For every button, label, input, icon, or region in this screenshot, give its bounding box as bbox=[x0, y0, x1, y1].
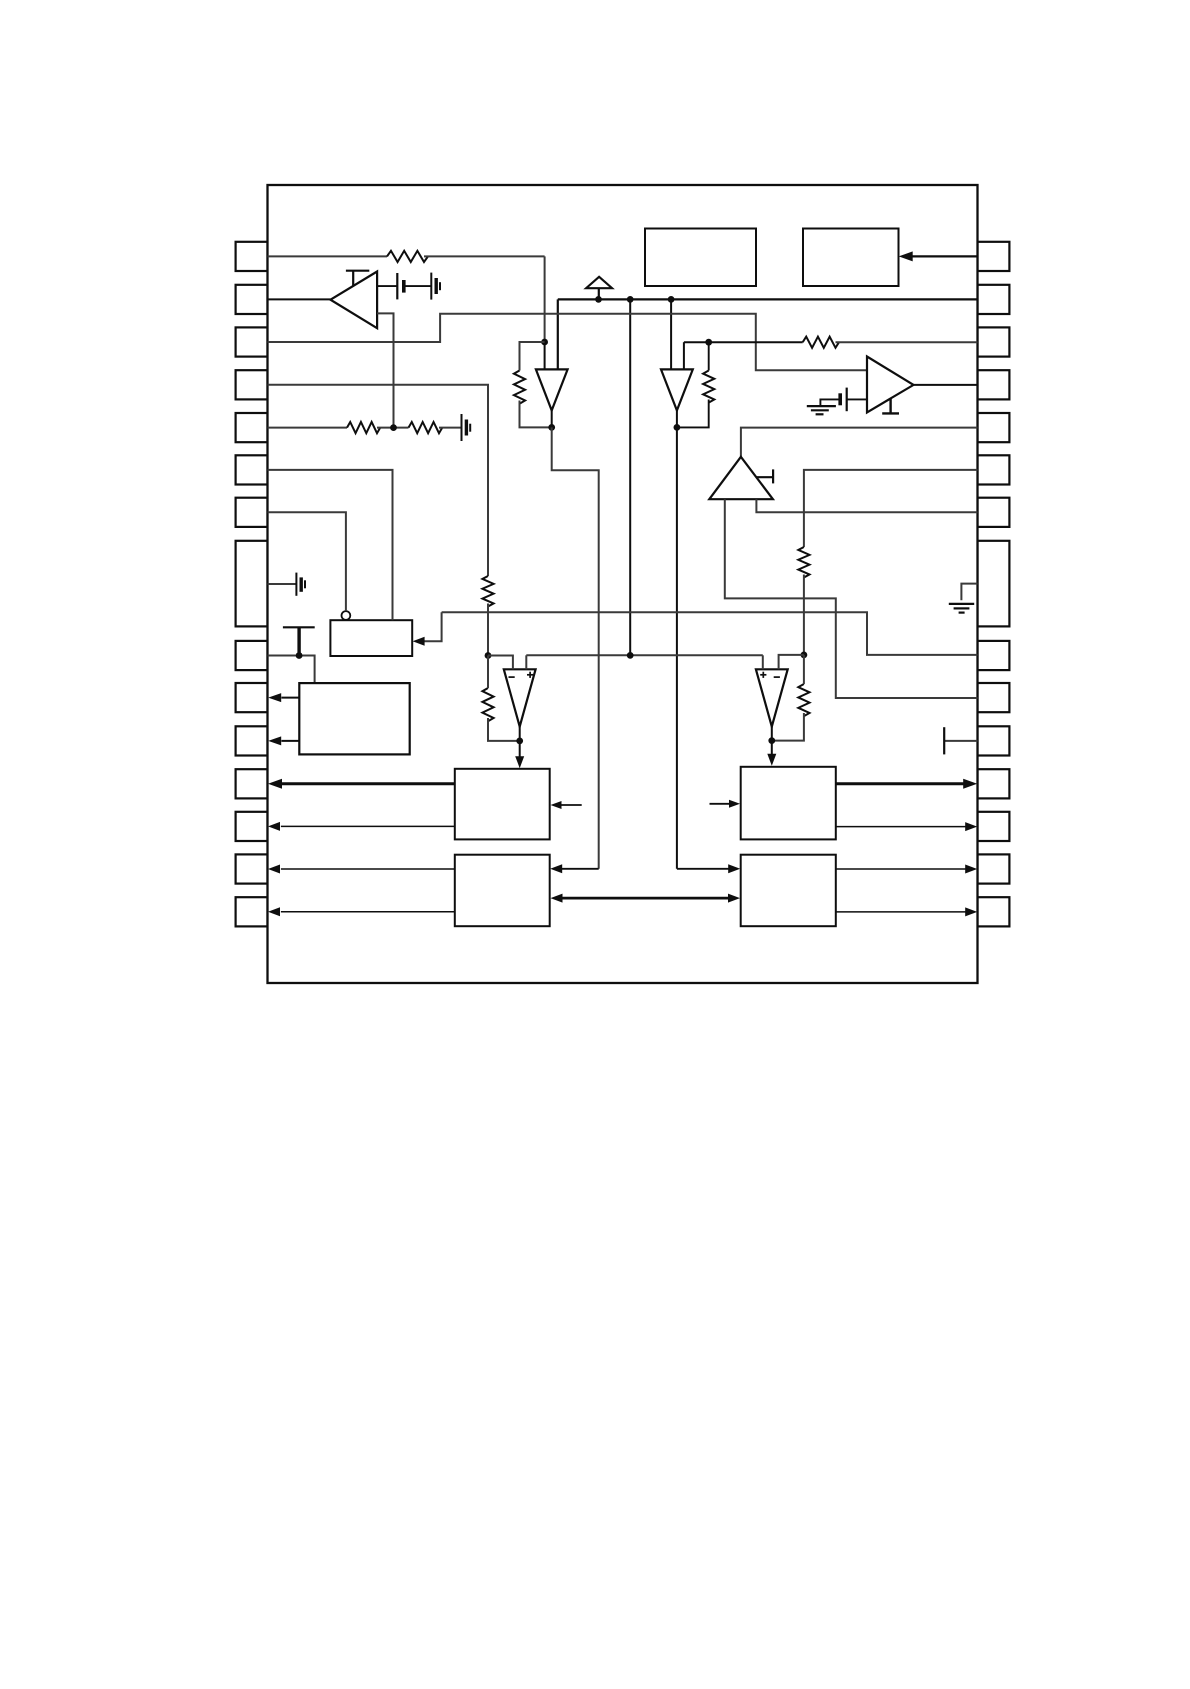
wire R4 to C1 output bbox=[488, 718, 520, 741]
pin 5 left bbox=[236, 413, 268, 442]
wire V2 to ground G3 bbox=[820, 399, 840, 406]
pin 21 right bbox=[978, 455, 1010, 484]
driver box B5 bbox=[741, 855, 836, 927]
resistor R5 bbox=[347, 422, 380, 433]
amp A2 (down-pointing) bbox=[661, 369, 693, 410]
battery V2 bbox=[846, 388, 848, 412]
pin 12 left bbox=[236, 769, 268, 798]
junction dot A1out bbox=[548, 424, 555, 431]
pin 18 right bbox=[978, 327, 1010, 356]
C2 output stub bbox=[771, 727, 773, 757]
stub arrow into B2 bbox=[561, 804, 582, 806]
junction dot node A1in bbox=[541, 339, 548, 346]
arrow B4 to pin28 bbox=[836, 826, 966, 828]
VCC bus left corner into amp A1 bbox=[557, 299, 559, 369]
wire X2 lower input bbox=[847, 398, 867, 400]
comparator C2 (down-pointing) bbox=[756, 669, 788, 726]
wire node to R10 bbox=[803, 655, 805, 684]
resistor R10 (C2 feedback) bbox=[798, 684, 809, 716]
wire node to R4 bbox=[487, 656, 489, 689]
center reference vertical wire bbox=[629, 299, 631, 655]
pin 27 right bbox=[978, 769, 1010, 798]
pin 17 right bbox=[978, 285, 1010, 314]
pin 26 right bbox=[978, 726, 1010, 755]
tee pin26 bbox=[944, 740, 977, 742]
wire T1 base-right to pin22 bbox=[756, 499, 977, 512]
arrow B5 to pin30 bbox=[836, 911, 966, 913]
crystal tee bbox=[297, 627, 300, 655]
wire pin9 into box BL bbox=[268, 656, 315, 684]
C1 plus label bbox=[527, 674, 533, 676]
resistor R3 bbox=[482, 576, 493, 606]
arrow B3 to pin14 bbox=[281, 868, 455, 870]
wire A2in to R7 bbox=[708, 342, 710, 370]
pin 13 left bbox=[236, 812, 268, 841]
junction dot divider bbox=[390, 424, 397, 431]
wire X2 output to pin19 bbox=[914, 384, 978, 386]
driver box B2 bbox=[455, 769, 550, 840]
pin 9 left bbox=[236, 641, 268, 670]
stub arrow into B4 bbox=[710, 803, 731, 805]
C1 output stub bbox=[519, 727, 521, 760]
wire control line bbox=[442, 612, 978, 655]
ground G4 bbox=[295, 573, 297, 596]
X2 bias tee bbox=[889, 398, 891, 413]
wire pin1 to R1 bbox=[268, 255, 388, 257]
resistor R7 (A2 feedback) bbox=[703, 371, 714, 403]
wire R5 to R6 bbox=[377, 427, 409, 429]
T1 enable tee bbox=[757, 476, 774, 478]
pin 16 right bbox=[978, 242, 1010, 271]
wire X1 lower output bbox=[377, 313, 393, 427]
arrow into box B3 right edge bbox=[562, 868, 599, 870]
arrow B4 to pin27 (thick) bbox=[836, 782, 965, 785]
driver box B3 bbox=[455, 855, 550, 927]
junction dot bus-center bbox=[627, 296, 634, 303]
pin 24 right bbox=[978, 641, 1010, 670]
resistor R8 bbox=[803, 337, 839, 348]
amp A1 output stub bbox=[551, 410, 553, 427]
wire pin5 to R5 bbox=[268, 427, 348, 429]
wire R8 to pin18 bbox=[836, 341, 978, 343]
wire pin21 to corner bbox=[804, 470, 978, 547]
arrow B5 to pin29 bbox=[836, 868, 966, 870]
pin 29 right bbox=[978, 854, 1010, 883]
buffer T1 (up-pointing amp) bbox=[709, 457, 773, 499]
pin 3 left bbox=[236, 327, 268, 356]
C2 minus label bbox=[774, 676, 780, 678]
pin 4 left bbox=[236, 370, 268, 399]
junction dot C1minus bbox=[485, 652, 492, 659]
comparator C1 (down-pointing) bbox=[504, 669, 536, 726]
block U1 (top middle box) bbox=[645, 229, 756, 287]
ground G5 bbox=[949, 603, 974, 605]
ground G1 bbox=[430, 273, 432, 300]
wire pin7 to bubble bbox=[268, 512, 346, 611]
pin 1 left bbox=[236, 242, 268, 271]
wire R1 to corner bbox=[424, 255, 545, 257]
junction dot A2out bbox=[674, 424, 681, 431]
wire A1out jog down bbox=[552, 427, 599, 868]
C1 minus label bbox=[509, 676, 515, 678]
wire bus to amp A2 left input bbox=[670, 299, 672, 369]
VCC bus wire bbox=[558, 298, 978, 300]
wire R7 to A2out bbox=[677, 400, 709, 428]
wire R2 to A1 output node bbox=[520, 401, 552, 428]
arrow B3 to pin15 bbox=[281, 911, 455, 913]
block U2 (top right box) bbox=[803, 229, 899, 287]
wire A2 right input bbox=[683, 342, 685, 369]
pin 2 left bbox=[236, 285, 268, 314]
wire V1 to ground G1 bbox=[404, 285, 432, 287]
wire T1 base-left to pin25 bbox=[725, 499, 978, 698]
arrow into box B5 left edge bbox=[677, 868, 730, 870]
pin 19 right bbox=[978, 370, 1010, 399]
buffer X1 (left-pointing amp) bbox=[331, 272, 378, 329]
arrow C1 into box B2 bbox=[515, 756, 524, 768]
wire C2 plus input bbox=[762, 655, 764, 669]
arrow C2 into box B4 bbox=[767, 754, 776, 766]
junction dot A2in bbox=[705, 339, 712, 346]
C2 plus label bbox=[760, 674, 766, 676]
resistor R9 bbox=[798, 547, 809, 577]
wire node to R2 top bbox=[520, 342, 545, 371]
pin 20 right bbox=[978, 413, 1010, 442]
arrow BL to pin10 bbox=[281, 697, 299, 699]
wire R3 to node C1minus bbox=[487, 604, 489, 656]
pin 22 right bbox=[978, 498, 1010, 527]
junction dot center bbox=[627, 652, 634, 659]
wire pin20 to T1 apex bbox=[741, 428, 978, 457]
junction dot C1out bbox=[516, 738, 523, 745]
wire node to pin18 resistor bbox=[684, 341, 803, 343]
pin 23 right (tall) bbox=[978, 541, 1010, 627]
bidirectional bus arrow B3-B5 bbox=[562, 897, 729, 900]
ground G2 bbox=[461, 414, 463, 441]
amp A1 (down-pointing) bbox=[536, 369, 568, 410]
junction dot C2minus bbox=[801, 652, 808, 659]
pin 8 left (tall) bbox=[236, 541, 268, 627]
logic box BL bbox=[299, 683, 409, 754]
pin 10 left bbox=[236, 683, 268, 712]
ground G3 bbox=[807, 405, 836, 407]
X1 enable tee bbox=[352, 271, 354, 287]
pin 30 right bbox=[978, 897, 1010, 926]
resistor R4 (C1 feedback) bbox=[482, 688, 493, 721]
center threshold wire bbox=[526, 654, 763, 656]
resistor R1 bbox=[387, 251, 428, 262]
wire pin6 to box B1 bbox=[268, 470, 393, 620]
resistor R2 (A1 feedback) bbox=[514, 371, 525, 404]
wire C1 minus input bbox=[488, 656, 513, 670]
wire X1 to battery V1 bbox=[377, 285, 397, 287]
pin 14 left bbox=[236, 854, 268, 883]
arrow B2 to pin13 bbox=[281, 825, 455, 827]
battery V1 bbox=[396, 273, 398, 299]
arrow B2 to pin12 (thick) bbox=[281, 782, 455, 785]
junction dot pin9 bbox=[296, 652, 303, 659]
arrow from pin 16 into U2 bbox=[911, 255, 978, 257]
wire pin8 to ground G4 bbox=[268, 583, 297, 585]
pin 6 left bbox=[236, 455, 268, 484]
wire R10 to C2 output bbox=[772, 713, 804, 741]
pin 25 right bbox=[978, 683, 1010, 712]
wire pin23 to ground G5 bbox=[961, 584, 977, 601]
arrow BL to pin11 bbox=[281, 740, 299, 742]
wire A2out down to box B5 bbox=[676, 427, 678, 868]
junction dot bus-A2 bbox=[668, 296, 675, 303]
supply symbol VCC bbox=[598, 288, 600, 299]
oscillator box B1 bbox=[330, 620, 412, 656]
wire down to amp A1 input bbox=[544, 256, 546, 342]
wire pin3 stepped to X2 bbox=[268, 314, 868, 371]
inverted input bubble bbox=[342, 611, 351, 620]
wire C2 minus input bbox=[779, 655, 804, 669]
wire pin2 to buffer X1 bbox=[268, 298, 331, 300]
wire C1 plus input bbox=[525, 655, 527, 669]
wire R6 to ground G2 bbox=[439, 427, 462, 429]
pin 15 left bbox=[236, 897, 268, 926]
driver box B4 bbox=[741, 767, 836, 840]
pin 28 right bbox=[978, 812, 1010, 841]
wire pin4 to corner bbox=[268, 385, 489, 576]
arrow into oscillator box bbox=[424, 612, 442, 641]
junction dot C2out bbox=[768, 737, 775, 744]
pin 7 left bbox=[236, 498, 268, 527]
op-amp X2 (right-pointing) bbox=[867, 357, 914, 413]
junction dot bus-supply bbox=[595, 296, 602, 303]
resistor R6 bbox=[409, 422, 443, 433]
wire R9 to node C2minus bbox=[803, 575, 805, 655]
IC body outline bbox=[268, 185, 978, 983]
amp A2 output stub bbox=[676, 410, 678, 427]
pin 11 left bbox=[236, 726, 268, 755]
